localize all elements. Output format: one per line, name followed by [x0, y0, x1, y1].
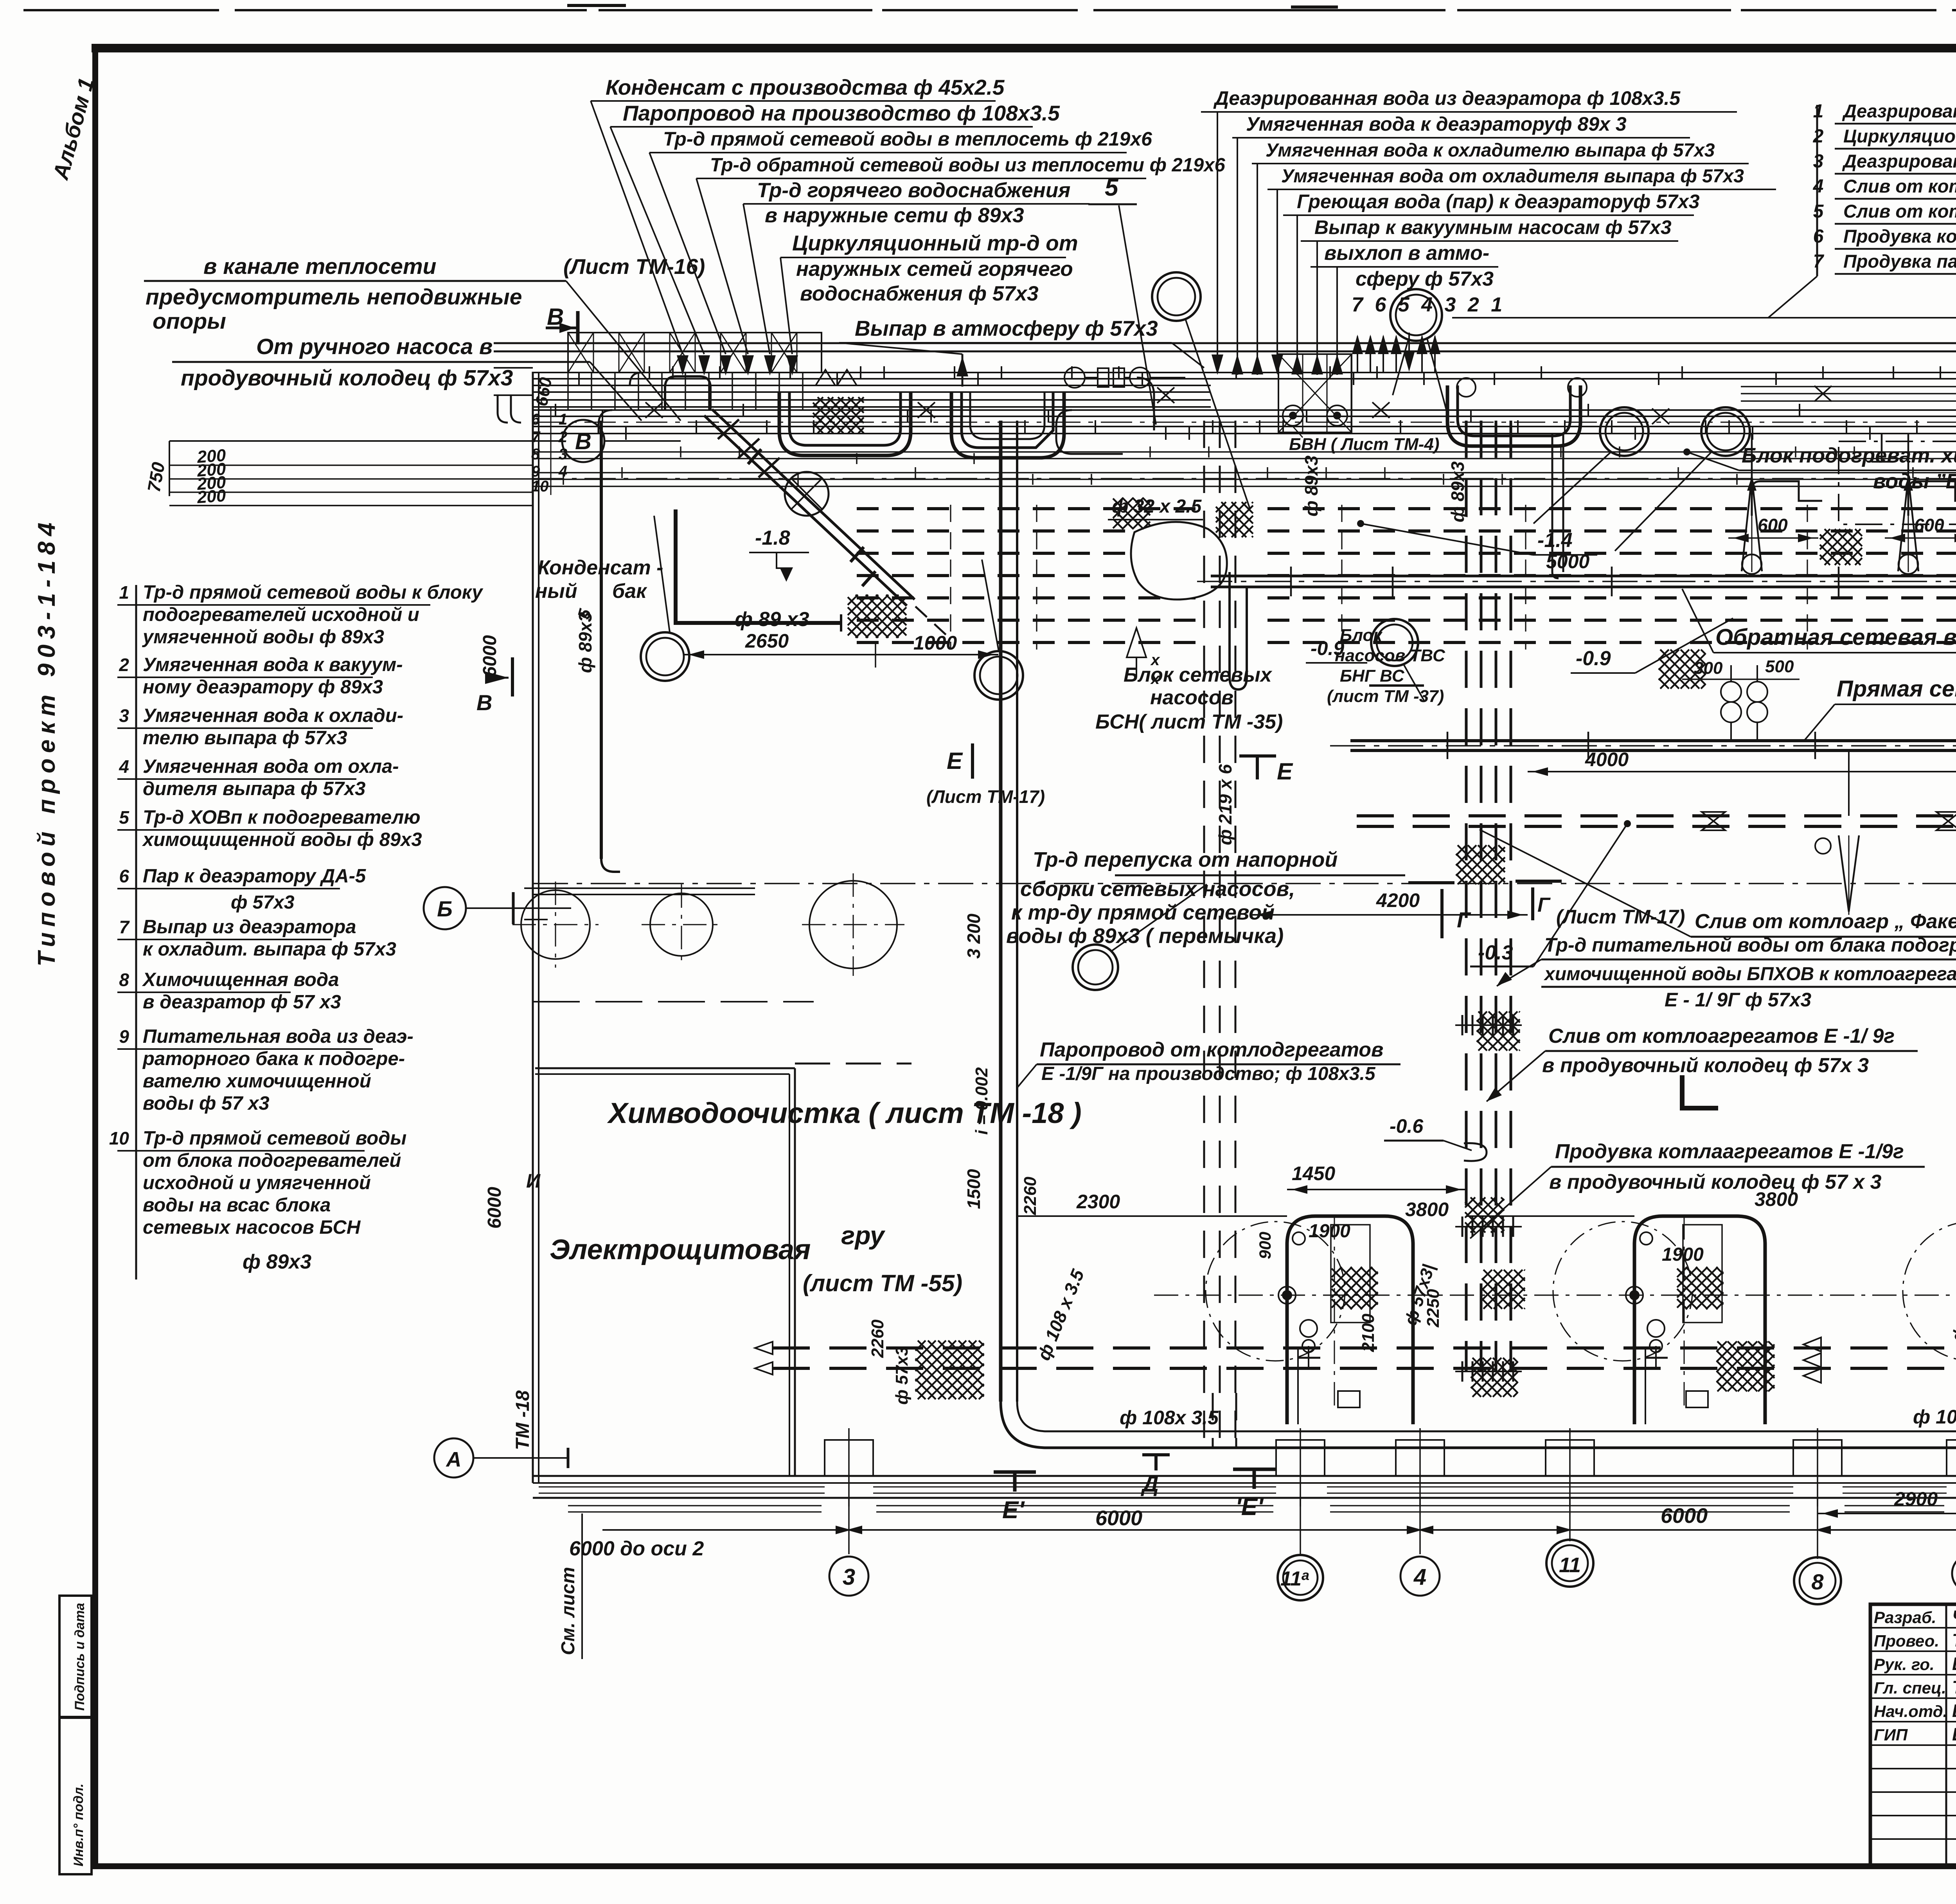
svg-text:Подпись и дата: Подпись и дата	[72, 1603, 87, 1711]
svg-text:200: 200	[196, 486, 227, 507]
svg-text:2300: 2300	[1076, 1191, 1120, 1213]
riser drop lines from gallery	[1751, 434, 1753, 477]
svg-text:в канале теплосети: в канале теплосети	[203, 254, 437, 279]
gallery tick marks across	[555, 404, 556, 416]
scan edge line top	[23, 9, 1956, 11]
svg-text:1: 1	[119, 582, 129, 603]
svg-text:Циркуляционный тр-д от: Циркуляционный тр-д от	[792, 231, 1078, 255]
boiler 1 internal dash-dot	[1334, 1216, 1335, 1409]
diagonal pipe dashed continuation	[915, 606, 951, 640]
svg-text:к тр-ду прямой сетевой: к тр-ду прямой сетевой	[1011, 901, 1275, 924]
svg-text:к охладит. выпара ф 57х3: к охладит. выпара ф 57х3	[143, 939, 396, 960]
svg-text:ф 219 х 6: ф 219 х 6	[1215, 764, 1235, 845]
hatch patches	[848, 595, 906, 638]
boiler 2 valve cluster	[1647, 1320, 1665, 1337]
svg-text:8: 8	[119, 970, 129, 990]
svg-text:В: В	[476, 690, 492, 715]
svg-text:Паропровод на производство ф: Паропровод на производство ф 108х3.5	[623, 101, 1060, 125]
svg-text:Умягченная вода к охлади-: Умягченная вода к охлади-	[143, 705, 403, 726]
flag E right	[1239, 754, 1276, 758]
riser bundle A dashed verticals	[1203, 421, 1205, 1444]
boiler 3 furnace circle	[1903, 1222, 1956, 1361]
svg-text:9: 9	[119, 1026, 129, 1047]
title block outer	[1870, 1604, 1956, 1866]
gallery pump circles BVN	[1283, 405, 1303, 426]
trench centerline dashdot	[533, 883, 1956, 884]
diagonal pipe with valve	[704, 416, 907, 606]
circle 17	[1701, 407, 1750, 456]
boiler loop 2	[1634, 1216, 1765, 1424]
compensator loop 3	[1447, 385, 1580, 446]
run A riser elbows with dims 600	[1752, 481, 1822, 516]
svg-text:ф 89х3: ф 89х3	[1447, 461, 1468, 522]
left list vertical rule	[135, 585, 137, 1280]
bowtie valves run D	[1702, 812, 1725, 830]
svg-text:предусмотритель неподвижные: предусмотритель неподвижные	[146, 284, 522, 310]
main steam pipe vertical from gallery	[999, 421, 1003, 1402]
valve pair on run B	[1721, 682, 1741, 702]
circle B left	[424, 887, 466, 929]
run A riser cones	[1742, 477, 1762, 571]
svg-text:продувочный колодец ф 57х3: продувочный колодец ф 57х3	[181, 365, 513, 391]
svg-text:6000 до оси 2: 6000 до оси 2	[569, 1537, 704, 1560]
svg-text:ф 57х3: ф 57х3	[231, 892, 295, 913]
arrows down into wall top-center	[677, 355, 689, 376]
svg-text:2: 2	[1813, 126, 1824, 147]
svg-text:Конденсат -: Конденсат -	[538, 556, 663, 579]
right list numbers and vertical rule	[1816, 105, 1818, 276]
boiler 2 leg dot	[1626, 1287, 1643, 1304]
blob outline left	[1131, 522, 1227, 599]
gallery extra pipes left	[533, 385, 1211, 386]
svg-text:6: 6	[119, 866, 129, 886]
svg-text:Б: Б	[437, 896, 453, 921]
condensate pipe hook top	[674, 509, 678, 520]
room Elektroshchitovaya walls	[535, 1067, 795, 1069]
svg-text:6000: 6000	[1661, 1504, 1708, 1528]
svg-text:Паропровод от котлодгрегатов: Паропровод от котлодгрегатов	[1040, 1038, 1383, 1061]
gallery hatched wall cells top-left	[568, 333, 822, 373]
svg-text:В: В	[575, 429, 591, 454]
svg-text:4: 4	[1413, 1564, 1426, 1590]
compensator loop 2	[951, 391, 1064, 458]
svg-text:600: 600	[1758, 515, 1788, 535]
svg-text:Слив от котлоагрегатов Е -1: Слив от котлоагрегатов Е -1/ 9г	[1548, 1025, 1895, 1047]
condensate thick pipe L	[676, 520, 841, 623]
svg-text:7: 7	[1813, 251, 1825, 272]
svg-text:5: 5	[1813, 201, 1824, 222]
svg-text:Е -1/9Г на производство; ф 1: Е -1/9Г на производство; ф 108х3.5	[1041, 1064, 1376, 1084]
wall left outer	[532, 372, 534, 1483]
svg-text:Тр-д ХОВп к подогревателю: Тр-д ХОВп к подогревателю	[143, 807, 421, 828]
svg-text:ГИП: ГИП	[1874, 1726, 1908, 1744]
leaders top-right cluster	[1217, 112, 1218, 364]
svg-text:Инв.п° подл.: Инв.п° подл.	[71, 1783, 86, 1866]
axis circle 8	[1794, 1557, 1841, 1604]
boiler 2 bottom leg lines	[1645, 1348, 1646, 1424]
svg-text:(лист ТМ -37): (лист ТМ -37)	[1327, 687, 1444, 706]
svg-text:500: 500	[1765, 657, 1794, 676]
svg-text:ф 89х3: ф 89х3	[1301, 455, 1321, 516]
run B dim row 4000 4000 800 2100	[1528, 771, 1956, 772]
svg-text:вателю химочищенной: вателю химочищенной	[143, 1071, 371, 1092]
svg-text:4: 4	[119, 756, 129, 777]
svg-text:ТМ -18: ТМ -18	[512, 1390, 533, 1450]
svg-text:ф 57х3: ф 57х3	[892, 1346, 911, 1405]
gallery S-bend cluster	[1056, 410, 1123, 454]
svg-text:6: 6	[1813, 226, 1824, 247]
svg-text:Выпар из деаэратора: Выпар из деаэратора	[143, 916, 356, 938]
flag D left	[1154, 1455, 1158, 1470]
svg-text:исходной и умягченной: исходной и умягченной	[143, 1172, 371, 1193]
boiler 1 furnace circle	[1206, 1222, 1345, 1361]
pump symbol bsn	[1127, 628, 1146, 657]
svg-text:Циркуляционный тр-д горячег: Циркуляционный тр-д горячего водоснабжен…	[1843, 126, 1956, 146]
svg-text:Тр-д прямой сетевой воды: Тр-д прямой сетевой воды	[143, 1128, 406, 1149]
boiler 1 burner circle	[1293, 1232, 1305, 1245]
svg-text:Питательная вода из деаэ-: Питательная вода из деаэ-	[143, 1026, 413, 1047]
svg-text:Блок: Блок	[1340, 626, 1383, 645]
room chemical water walls	[533, 1001, 814, 1002]
svg-text:в продувочный колодец ф 5: в продувочный колодец ф 57х 3	[1542, 1054, 1869, 1077]
circle 16	[974, 651, 1023, 700]
svg-text:ф 89 х3: ф 89 х3	[735, 608, 809, 631]
run D riser cones down	[1839, 835, 1859, 912]
svg-text:Цыгрик: Цыгрик	[1952, 1724, 1956, 1744]
run B cross ticks	[1447, 732, 1449, 759]
left stub pipes outside wall	[494, 367, 533, 369]
left small dim rows 200	[169, 464, 532, 466]
svg-text:2250: 2250	[1424, 1289, 1443, 1328]
boiler 1 leg dot	[1278, 1287, 1296, 1304]
bundle B tick clusters	[1462, 1015, 1463, 1035]
svg-text:3: 3	[843, 1564, 855, 1590]
axis circle 11a	[1278, 1555, 1323, 1600]
svg-text:в продувочный колодец ф 57: в продувочный колодец ф 57 х 3	[1549, 1171, 1882, 1193]
dashed vertical risers in boiler area	[1212, 1393, 1214, 1448]
svg-text:См. лист: См. лист	[558, 1567, 579, 1655]
svg-text:3: 3	[559, 446, 567, 463]
leader line from list to plan	[1452, 317, 1956, 319]
svg-text:11: 11	[1559, 1553, 1581, 1577]
svg-text:Умягченная вода от охлади: Умягченная вода от охладителя выпара ф 5…	[1281, 166, 1744, 187]
section flag B left	[511, 657, 514, 696]
svg-text:Г: Г	[1537, 894, 1551, 916]
svg-text:Умягченная вода к вакуум-: Умягченная вода к вакуум-	[143, 654, 403, 675]
axis circle 3	[829, 1557, 868, 1596]
svg-text:водоснабжения ф 57х3: водоснабжения ф 57х3	[800, 282, 1039, 305]
svg-text:5000: 5000	[1546, 551, 1589, 572]
svg-text:3: 3	[1813, 151, 1824, 172]
svg-text:(лист ТМ -55): (лист ТМ -55)	[803, 1270, 962, 1296]
svg-text:Конденсат с производства ф: Конденсат с производства ф 45х2.5	[606, 75, 1005, 99]
svg-text:химощищенной воды ф 89х3: химощищенной воды ф 89х3	[142, 829, 422, 850]
svg-text:Шерман: Шерман	[1952, 1654, 1956, 1674]
hollow triangles near wall	[816, 370, 835, 385]
svg-text:телю выпара ф 57х3: телю выпара ф 57х3	[143, 727, 347, 749]
svg-text:E': E'	[1002, 1497, 1025, 1524]
axis circle 4	[1400, 1557, 1440, 1596]
svg-text:2: 2	[558, 428, 567, 446]
svg-text:х: х	[1150, 670, 1160, 687]
svg-text:сетевых насосов БСН: сетевых насосов БСН	[143, 1217, 361, 1238]
margin box podpis i data	[59, 1596, 92, 1717]
axis circle 5	[1952, 1555, 1956, 1592]
pipe gallery long horizontal lines	[533, 372, 1956, 373]
circle 13	[1152, 272, 1201, 321]
svg-text:Г: Г	[1457, 907, 1471, 932]
pipe run D drain dashed	[1357, 814, 1956, 817]
bottom wall inner lines white gaps	[539, 1486, 825, 1488]
svg-text:дителя выпара ф 57х3: дителя выпара ф 57х3	[143, 778, 365, 799]
svg-text:-1.4: -1.4	[1537, 529, 1573, 552]
svg-text:10: 10	[109, 1128, 129, 1148]
circle 14	[641, 632, 689, 681]
svg-text:3800: 3800	[1405, 1199, 1449, 1220]
svg-text:бак: бак	[612, 580, 647, 603]
svg-text:От ручного насоса в: От ручного насоса в	[256, 334, 493, 359]
dashed trench field	[857, 507, 1207, 510]
boiler 2 inner rect	[1683, 1225, 1722, 1323]
svg-text:Тр-д горячего водоснабжения: Тр-д горячего водоснабжения	[757, 179, 1070, 202]
svg-text:Блок подогреват. химочищенно: Блок подогреват. химочищенной	[1742, 444, 1956, 467]
svg-text:2260: 2260	[868, 1319, 887, 1358]
svg-text:Тр-д питательной воды от бл: Тр-д питательной воды от блака подогрева…	[1544, 934, 1956, 956]
svg-text:-0.6: -0.6	[1390, 1115, 1424, 1137]
svg-text:Греющая вода (пар) к деаэрат: Греющая вода (пар) к деаэраторуф 57х3	[1297, 191, 1700, 212]
svg-text:ф 108 х 3.5: ф 108 х 3.5	[1913, 1406, 1956, 1428]
svg-text:насосов ТВС: насосов ТВС	[1335, 646, 1445, 665]
wall above tanks	[533, 887, 755, 889]
gallery small tees right half	[1881, 434, 1883, 462]
circle A left	[434, 1438, 473, 1477]
vertical pipe phi89 left	[600, 421, 603, 859]
svg-text:Деазрированная вода из аккуму: Деазрированная вода из аккумуляторных ба…	[1842, 151, 1956, 171]
svg-text:выхлоп в атмо-: выхлоп в атмо-	[1324, 242, 1489, 265]
svg-text:Барпенко: Барпенко	[1952, 1701, 1956, 1721]
BPKhOV dash-dot rectangle	[1839, 441, 1956, 524]
svg-text:1900: 1900	[1309, 1221, 1350, 1242]
circle 2 bottom	[1073, 945, 1118, 990]
svg-text:гру: гру	[841, 1221, 886, 1250]
svg-text:2100: 2100	[1359, 1314, 1378, 1352]
gallery valve trio	[1064, 367, 1085, 388]
room GRU dashed wall	[795, 1063, 911, 1065]
svg-text:Деазрированная вода в аккум: Деазрированная вода в аккумуляторные бак…	[1842, 101, 1956, 121]
boiler row centerline dashdot	[1154, 1294, 1956, 1296]
svg-text:2650: 2650	[745, 630, 789, 652]
title block signature rows	[1870, 1627, 1956, 1629]
svg-text:Выпар в атмосферу ф 57х3: Выпар в атмосферу ф 57х3	[855, 316, 1158, 340]
axis lines to circles	[848, 1498, 850, 1554]
svg-text:Тр-д прямой сетевой воды к: Тр-д прямой сетевой воды к блоку	[143, 582, 484, 603]
svg-text:Е - 1/ 9Г ф 57х3: Е - 1/ 9Г ф 57х3	[1665, 989, 1811, 1011]
svg-text:3 200: 3 200	[964, 913, 984, 959]
svg-text:-0.9: -0.9	[1576, 647, 1611, 670]
diagonal pipe flanges	[748, 449, 761, 464]
compensator loop 2 inner U	[970, 391, 1045, 439]
svg-text:8: 8	[1811, 1569, 1824, 1594]
compensator loop 1	[779, 391, 911, 455]
svg-text:4000: 4000	[1585, 749, 1629, 770]
svg-text:от блока подогревателей: от блока подогревателей	[143, 1150, 401, 1171]
leader from teploseti label	[566, 281, 681, 421]
svg-text:6000: 6000	[484, 1187, 505, 1229]
letters E-prime	[994, 1470, 1036, 1474]
svg-text:БВН ( Лист ТМ-4): БВН ( Лист ТМ-4)	[1289, 435, 1440, 454]
svg-text:ф 108х 3.5: ф 108х 3.5	[1120, 1407, 1219, 1429]
svg-text:2900: 2900	[1894, 1488, 1938, 1510]
svg-text:Деаэрированная вода из деаэра: Деаэрированная вода из деаэратора ф 108х…	[1213, 87, 1681, 109]
arrows top-right cluster	[1212, 355, 1223, 375]
svg-text:Рук. го.: Рук. го.	[1874, 1655, 1934, 1674]
numbered pipe rows lines	[533, 451, 1956, 453]
svg-text:Черевко: Черевко	[1952, 1607, 1956, 1627]
svg-text:i = 0.002: i = 0.002	[972, 1067, 991, 1135]
section flag V top	[576, 311, 580, 344]
arrow up vypar	[962, 354, 964, 387]
arrows under digits row	[1352, 335, 1363, 354]
svg-text:5: 5	[1105, 174, 1119, 201]
svg-text:Продувка котлоагрегатов Е: Продувка котлоагрегатов Е-1/9Г ф57х 3	[1843, 226, 1956, 247]
boiler small squares row	[1338, 1391, 1360, 1407]
svg-text:(Лист ТМ-17): (Лист ТМ-17)	[926, 786, 1045, 807]
riser bundle B dashed verticals	[1465, 421, 1468, 1371]
margin box inv no podl	[59, 1718, 92, 1874]
svg-text:1: 1	[559, 411, 567, 428]
border frame top band	[92, 44, 1956, 52]
triple arrows mid drain	[1803, 1337, 1821, 1352]
svg-text:химочищенной воды БПХОВ к: химочищенной воды БПХОВ к котлоагрегатам	[1543, 964, 1956, 984]
svg-text:300: 300	[1694, 659, 1723, 678]
svg-text:Умягченная вода к охладите: Умягченная вода к охладителю выпара ф 57…	[1266, 140, 1715, 161]
svg-text:воды ”БПХ ОВ: воды ”БПХ ОВ	[1873, 470, 1956, 493]
svg-text:Слив от котлоагрегатов Е-1: Слив от котлоагрегатов Е-1/ 9Г ф108х 3.5	[1843, 201, 1956, 221]
svg-text:Тр-д прямой сетевой воды в: Тр-д прямой сетевой воды в теплосеть ф 2…	[663, 128, 1152, 150]
boiler 2 furnace circle	[1553, 1222, 1692, 1361]
svg-text:Продувка паропровода ф 25х 2: Продувка паропровода ф 25х 2	[1843, 251, 1956, 272]
gallery small fittings	[645, 402, 663, 418]
svg-text:раторного бака к подогре-: раторного бака к подогре-	[142, 1048, 405, 1069]
svg-text:Е: Е	[947, 748, 963, 774]
axis circle 11	[1546, 1540, 1593, 1587]
circle 26	[1390, 289, 1442, 341]
svg-text:Тр-д обратной сетевой воды из: Тр-д обратной сетевой воды из теплосети …	[710, 155, 1226, 176]
svg-text:7: 7	[119, 917, 130, 937]
svg-text:Е: Е	[1277, 758, 1293, 785]
svg-text:ному деаэратору ф 89х3: ному деаэратору ф 89х3	[143, 677, 383, 698]
gallery omega small loop left	[665, 376, 710, 410]
boiler 2 internal dash-dot	[1684, 1216, 1685, 1409]
svg-text:-0.3: -0.3	[1478, 941, 1513, 964]
run A cross ticks	[1290, 567, 1292, 596]
svg-text:1: 1	[1813, 101, 1824, 122]
left wall pilasters	[524, 887, 548, 889]
svg-text:4: 4	[1813, 176, 1824, 197]
boiler 2 burner circle	[1640, 1232, 1652, 1245]
gallery drop verticals left	[567, 373, 569, 410]
svg-text:насосов: насосов	[1150, 686, 1233, 709]
svg-text:Тр-д перепуска от напорной: Тр-д перепуска от напорной	[1033, 848, 1338, 871]
svg-text:Блок сетевых: Блок сетевых	[1124, 664, 1273, 686]
svg-text:Пар к деаэратору ДА-5: Пар к деаэратору ДА-5	[143, 866, 366, 887]
svg-text:подогревателей исходной и: подогревателей исходной и	[143, 604, 419, 625]
svg-text:3: 3	[119, 705, 129, 726]
foundation lines below wall	[568, 1505, 822, 1506]
wall bottom outer band	[533, 1475, 1956, 1477]
tank circle 3	[809, 881, 897, 968]
svg-text:4200: 4200	[1376, 889, 1420, 911]
svg-text:Терехав: Терехав	[1952, 1630, 1956, 1650]
svg-text:3800: 3800	[1755, 1188, 1798, 1210]
svg-text:умягченной воды ф 89х3: умягченной воды ф 89х3	[142, 626, 384, 648]
svg-text:воды на всас блока: воды на всас блока	[143, 1195, 331, 1216]
trench vertical riser ticks	[950, 505, 951, 650]
svg-text:1900: 1900	[1662, 1244, 1704, 1265]
svg-text:-1.8: -1.8	[755, 527, 790, 549]
svg-text:сборки сетевых насосов,: сборки сетевых насосов,	[1020, 877, 1295, 901]
svg-text:(Лист ТМ-16): (Лист ТМ-16)	[563, 254, 705, 279]
svg-text:6000: 6000	[480, 635, 500, 677]
svg-text:Провео.: Провео.	[1874, 1632, 1939, 1650]
svg-text:Умягченная вода к деаэратор: Умягченная вода к деаэраторуф 89х 3	[1246, 113, 1627, 135]
svg-text:2260: 2260	[1021, 1177, 1040, 1215]
svg-text:7 6 5 4 3 2 1: 7 6 5 4 3 2 1	[1352, 293, 1505, 316]
svg-text:в наружные сети ф 89х3: в наружные сети ф 89х3	[765, 204, 1024, 227]
svg-text:'E': 'E'	[1235, 1494, 1264, 1521]
run A left elbow down cap	[1228, 572, 1231, 677]
svg-text:ный: ный	[535, 580, 577, 603]
svg-text:Умягченная вода от охла-: Умягченная вода от охла-	[143, 756, 399, 777]
svg-text:х: х	[1150, 651, 1160, 669]
svg-text:Гл. спец.: Гл. спец.	[1874, 1679, 1946, 1697]
leader lines to arrows top-center	[591, 101, 683, 354]
svg-text:наружных сетей горячего: наружных сетей горячего	[796, 257, 1073, 281]
gallery hatched strip mid	[1278, 354, 1352, 432]
boiler 1 bottom leg lines	[1297, 1348, 1299, 1424]
svg-text:900: 900	[1256, 1232, 1274, 1259]
svg-text:1500: 1500	[964, 1169, 984, 1209]
svg-text:Химводоочистка ( лист ТМ -1: Химводоочистка ( лист ТМ -18 )	[607, 1097, 1082, 1129]
svg-text:(Лист ТМ-17): (Лист ТМ-17)	[1556, 906, 1685, 928]
svg-text:Электрощитовая: Электрощитовая	[550, 1234, 811, 1265]
border frame left	[92, 44, 98, 1869]
axis line V with circle	[169, 440, 681, 442]
boiler 1 inner rect	[1331, 1225, 1370, 1323]
svg-text:2: 2	[119, 655, 129, 675]
svg-text:5: 5	[119, 807, 129, 828]
svg-text:в деазратор ф 57 х3: в деазратор ф 57 х3	[143, 992, 341, 1013]
circle 12	[1600, 407, 1649, 456]
bundle B hatch patches	[1456, 845, 1505, 884]
tank circle 1	[521, 890, 590, 959]
dashed drain lines across boiler area	[773, 1346, 1956, 1350]
svg-text:воды ф 57 х3: воды ф 57 х3	[143, 1093, 270, 1114]
title block signature table verticals	[1945, 1604, 1947, 1866]
svg-text:ф 89х3: ф 89х3	[243, 1251, 311, 1273]
pipe run A return water main	[1211, 575, 1956, 578]
boiler loop 1	[1287, 1216, 1413, 1424]
svg-text:Слив от котлоагрегатов „ Фа: Слив от котлоагрегатов „ Факел”ф 89х3	[1843, 176, 1956, 196]
riser pipe to run A	[1551, 434, 1553, 572]
pipe run E phi108 horizontal above bottom wall	[1052, 1447, 1956, 1449]
svg-text:1450: 1450	[1292, 1163, 1335, 1184]
L-symbol produvka	[1682, 1075, 1718, 1108]
diagonal pipe hatch ticks	[718, 419, 739, 439]
svg-text:Слив от котлоагр „ Факел: Слив от котлоагр „ Факел ” и предохранит…	[1695, 910, 1956, 933]
svg-text:6000: 6000	[1095, 1506, 1142, 1530]
border frame bottom	[92, 1863, 1956, 1869]
